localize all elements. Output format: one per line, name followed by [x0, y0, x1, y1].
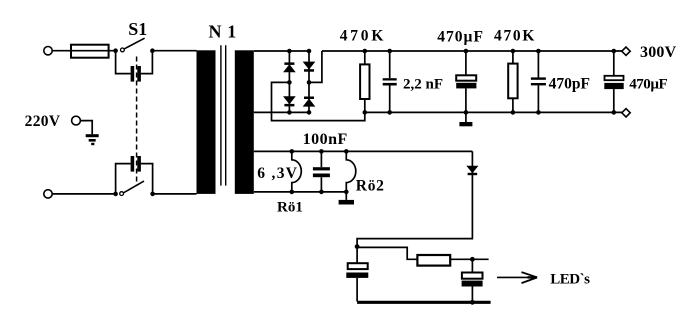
svg-text:470µF: 470µF: [629, 76, 667, 92]
svg-text:300V: 300V: [640, 44, 677, 61]
svg-text:470pF: 470pF: [549, 75, 590, 92]
svg-text:470K: 470K: [340, 27, 387, 44]
svg-text:220V: 220V: [25, 113, 61, 130]
svg-text:6 ,3V: 6 ,3V: [257, 165, 298, 182]
svg-text:470K: 470K: [494, 27, 536, 44]
svg-text:LED`s: LED`s: [550, 271, 590, 287]
svg-text:Rö2: Rö2: [356, 178, 385, 195]
svg-text:2,2 nF: 2,2 nF: [403, 76, 443, 92]
svg-text:S1: S1: [128, 19, 147, 39]
svg-text:Rö1: Rö1: [277, 200, 303, 216]
svg-text:470µF: 470µF: [437, 28, 484, 45]
svg-text:100nF: 100nF: [303, 131, 348, 148]
svg-text:N 1: N 1: [209, 22, 237, 42]
